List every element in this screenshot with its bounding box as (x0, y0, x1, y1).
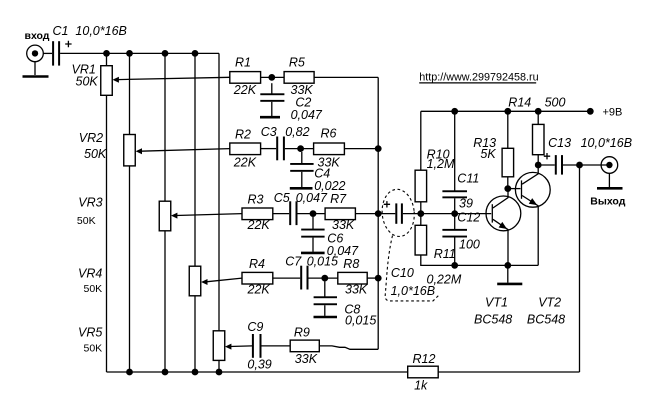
wire VT2 base (508, 188, 521, 190)
wire bottom rail right (438, 371, 579, 373)
capacitor C9 (252, 334, 262, 358)
svg-text:+9В: +9В (603, 106, 623, 118)
svg-text:R8: R8 (343, 257, 359, 271)
svg-text:50K: 50K (84, 343, 103, 355)
svg-text:33K: 33K (332, 218, 355, 232)
transistor VT1 (486, 189, 521, 266)
svg-text:Выход: Выход (590, 195, 625, 207)
ground (emitters) (497, 265, 522, 284)
wire R9 to summing rail (319, 346, 378, 349)
potentiometer VR3 (159, 201, 171, 231)
svg-text:0,015: 0,015 (345, 314, 376, 328)
svg-text:39: 39 (459, 196, 473, 210)
resistor R12 (408, 366, 439, 378)
svg-text:R12: R12 (413, 352, 436, 366)
node C7-R8 junction (321, 275, 328, 282)
svg-text:22K: 22K (247, 218, 271, 232)
capacitor C3 (276, 137, 285, 161)
wire vertical line 3 (164, 53, 166, 372)
wire vertical line 2 (129, 53, 131, 372)
capacitor C7 (300, 266, 308, 290)
ground (C6) (301, 252, 325, 255)
svg-text:VT2: VT2 (538, 296, 561, 310)
wire VR1 wiper from R1 (118, 77, 230, 79)
svg-text:BC548: BC548 (474, 313, 512, 327)
wire C3 to R6 (285, 148, 314, 150)
svg-text:1k: 1k (414, 378, 428, 392)
node top rail dots (103, 50, 198, 57)
input connector X1 (27, 45, 44, 75)
resistor R2 (230, 143, 261, 155)
capacitor C4 (290, 152, 313, 187)
svg-text:0,22M: 0,22M (427, 272, 462, 286)
svg-text:R5: R5 (289, 55, 305, 69)
wire R14 node to C13 (538, 164, 555, 166)
wire summing rail vertical (377, 77, 379, 349)
svg-text:R3: R3 (248, 192, 264, 206)
svg-text:R4: R4 (249, 257, 265, 271)
wire VR5 wiper from C9 (230, 345, 253, 348)
svg-text:50K: 50K (77, 215, 96, 227)
wire C13 to output (563, 164, 609, 166)
wire R6 to summing rail (344, 148, 378, 150)
wire C9 to R9 (262, 345, 291, 347)
resistor R4 (242, 272, 273, 284)
svg-text:VR2: VR2 (79, 131, 103, 145)
svg-text:22K: 22K (233, 83, 257, 97)
ground (input) (23, 75, 49, 78)
svg-text:R2: R2 (235, 128, 251, 142)
wire R1 to R5 (261, 76, 285, 78)
resistor R5 (284, 72, 314, 84)
capacitor C6 (301, 217, 324, 252)
wire VR4 wiper from R4 (206, 278, 242, 282)
resistor R11 (415, 214, 538, 266)
svg-text:50K: 50K (76, 75, 99, 89)
svg-text:C10: C10 (391, 266, 414, 280)
svg-text:C7: C7 (285, 255, 302, 269)
wire R8 to summing rail (367, 277, 378, 279)
wire summing rail to C10 (378, 213, 395, 215)
ground (C4) (290, 187, 313, 190)
resistor R8 (338, 272, 367, 284)
url text (419, 72, 538, 84)
svg-text:C3: C3 (261, 125, 277, 139)
svg-text:0,39: 0,39 (247, 358, 271, 372)
svg-text:R11: R11 (434, 247, 456, 261)
capacitor C5 (289, 201, 297, 225)
svg-text:10,0*16В: 10,0*16В (581, 136, 632, 150)
dashed callout around C10 (380, 188, 439, 301)
ground (C2) (260, 116, 280, 119)
node R1-R5 junction (268, 74, 275, 81)
svg-text:C12: C12 (457, 211, 480, 225)
resistor R14 (533, 111, 545, 165)
potentiometer VR4 (189, 266, 201, 296)
svg-text:C11: C11 (457, 172, 479, 186)
svg-text:BC548: BC548 (527, 313, 565, 327)
wire VR2 wiper from R2 (141, 149, 230, 152)
wire +9V rail (421, 110, 591, 112)
svg-text:C5: C5 (274, 191, 290, 205)
svg-text:VR5: VR5 (78, 326, 102, 340)
node C3-R6 junction (297, 145, 304, 152)
svg-text:VR3: VR3 (78, 195, 102, 209)
resistor R9 (290, 340, 319, 352)
node VT2 collector / R14 / C13 (535, 162, 542, 169)
wire feedback from output node down (579, 165, 581, 372)
wire vertical line 5 (218, 53, 220, 372)
capacitor C1 (52, 41, 72, 66)
potentiometer VR2 (124, 135, 136, 166)
node emitter row dots (451, 262, 511, 269)
capacitor C11 (442, 111, 467, 213)
wire top rail (60, 52, 219, 54)
svg-text:500: 500 (545, 95, 566, 109)
svg-text:0,82: 0,82 (285, 125, 309, 139)
wire input to C1 (43, 52, 52, 54)
svg-text:22K: 22K (233, 155, 257, 169)
svg-text:33K: 33K (345, 283, 368, 297)
svg-text:R14: R14 (508, 95, 531, 109)
svg-text:5K: 5K (480, 147, 496, 161)
node C11-C12 junction (451, 210, 458, 217)
wire R4 to C7 (273, 277, 300, 279)
node summing rail dots (375, 145, 382, 281)
svg-text:R6: R6 (321, 126, 337, 140)
svg-text:VT1: VT1 (485, 296, 508, 310)
wire vertical line 1 (106, 53, 108, 372)
resistor R7 (325, 208, 355, 220)
node bottom rail dots (126, 369, 222, 376)
svg-text:22K: 22K (247, 283, 271, 297)
resistor R10 (415, 111, 427, 213)
capacitor C13 (544, 153, 563, 175)
wire R3 to C5 (273, 213, 289, 215)
resistor R1 (230, 72, 261, 84)
resistor R6 (314, 143, 345, 155)
svg-text:100: 100 (459, 237, 480, 251)
svg-text:R1: R1 (235, 56, 251, 70)
node A (R10/R11/C10) (417, 210, 424, 217)
svg-text:http://www.299792458.ru: http://www.299792458.ru (419, 72, 538, 84)
svg-text:вход: вход (25, 30, 50, 42)
wire VT1 base from C11 node (455, 213, 492, 215)
svg-text:0,047: 0,047 (296, 191, 328, 205)
potentiometer VR5 (213, 331, 225, 361)
wire C7 to R8 (309, 277, 338, 279)
wire VR3 wiper from R3 (176, 214, 242, 216)
ground (output) (597, 187, 623, 190)
wire vertical line 4 (194, 53, 196, 372)
wire R7 to summing rail (355, 213, 378, 215)
capacitor C2 (260, 83, 284, 116)
svg-text:R9: R9 (294, 325, 310, 339)
wire bottom rail left (107, 371, 408, 373)
svg-text:C13: C13 (548, 136, 571, 150)
wire R2 to C3 (261, 148, 277, 150)
wire R5 to summing rail (314, 76, 378, 78)
svg-text:0,015: 0,015 (307, 255, 338, 269)
node C5-R7 junction (310, 210, 317, 217)
node output junction (576, 162, 583, 169)
output connector X2 (601, 157, 618, 188)
potentiometer VR1 (101, 66, 113, 96)
ground (C8) (314, 316, 338, 319)
svg-text:33K: 33K (295, 352, 318, 366)
capacitor C12 (442, 214, 467, 266)
svg-text:R7: R7 (330, 192, 347, 206)
svg-text:C1 10,0*16В: C1 10,0*16В (53, 24, 127, 38)
svg-text:VR4: VR4 (78, 267, 102, 281)
svg-text:1,2M: 1,2M (427, 157, 455, 171)
svg-text:C9: C9 (247, 320, 263, 334)
resistor R13 (502, 111, 513, 188)
svg-text:0,047: 0,047 (291, 108, 323, 122)
svg-text:50K: 50K (84, 147, 107, 161)
node +9V rail dots (451, 108, 593, 115)
wire C10 to node A (403, 213, 455, 215)
node VT1 collector / R13 / VT2 base (504, 185, 511, 192)
svg-text:50K: 50K (84, 283, 103, 295)
transistor VT2 (515, 165, 550, 265)
capacitor C8 (314, 282, 337, 316)
resistor R3 (242, 208, 273, 220)
wire C5 to R7 (298, 213, 326, 215)
capacitor C10 (384, 201, 403, 224)
